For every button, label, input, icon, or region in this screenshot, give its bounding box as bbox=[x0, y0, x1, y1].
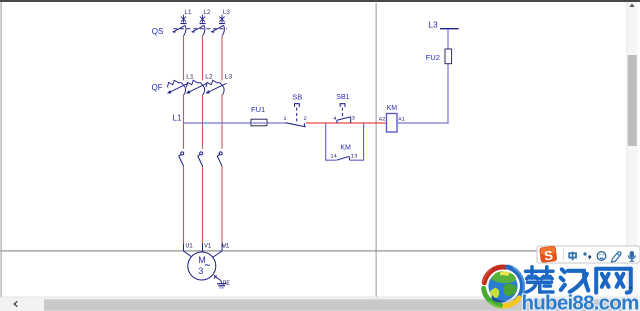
supply terminal L1 bbox=[181, 15, 187, 24]
sogou S logo bbox=[539, 246, 557, 264]
motor M 3~ bbox=[188, 252, 216, 280]
bottom scrollbar track bbox=[0, 297, 640, 311]
disconnect switch QS pole 2 bbox=[191, 25, 205, 35]
supply terminal L3 bbox=[219, 15, 225, 24]
svg-text:KM: KM bbox=[340, 145, 351, 152]
circuit breaker QF pole 2 bbox=[186, 80, 207, 94]
toolbar separator bbox=[563, 249, 565, 261]
icon smiley bbox=[597, 252, 606, 261]
top window border bbox=[0, 0, 640, 2]
svg-text:13: 13 bbox=[351, 152, 358, 159]
svg-text:KM: KM bbox=[387, 105, 398, 112]
wire phase L2 vertical (QF to KM contact) bbox=[202, 95, 204, 149]
hanzi han you bbox=[568, 271, 588, 291]
wire phase L1 vertical (QS to QF) bbox=[183, 36, 185, 81]
svg-text:A2: A2 bbox=[379, 116, 386, 123]
contactor KM main contact pole 1 bbox=[179, 152, 184, 166]
svg-text:M: M bbox=[198, 255, 206, 265]
supply terminal L2 bbox=[200, 15, 206, 24]
toolbar body bbox=[537, 246, 640, 263]
QS mechanical link dashed bbox=[174, 28, 228, 30]
svg-text:L1: L1 bbox=[173, 114, 182, 123]
circuit breaker QF pole 1 bbox=[167, 80, 188, 94]
pushbutton SB (stop, NC) bbox=[286, 104, 306, 127]
hanzi wang outer box bbox=[594, 269, 598, 293]
svg-text:W1: W1 bbox=[222, 243, 230, 250]
svg-text:FU2: FU2 bbox=[426, 53, 440, 62]
ground PE bbox=[214, 275, 226, 288]
disconnect switch QS pole 3 bbox=[210, 25, 224, 35]
wire KM coil to FU2 (blue) bbox=[397, 64, 448, 124]
svg-text:FU1: FU1 bbox=[251, 105, 265, 114]
svg-text:3: 3 bbox=[198, 266, 203, 276]
svg-text:L3: L3 bbox=[428, 20, 438, 30]
icon punctuation bbox=[583, 252, 591, 260]
fuse FU2 bbox=[445, 49, 452, 64]
KM self-holding branch wires bbox=[326, 124, 364, 161]
contactor coil KM bbox=[387, 114, 398, 133]
svg-text:SB: SB bbox=[292, 93, 302, 102]
disconnect switch QS pole 1 bbox=[172, 25, 186, 35]
circuit breaker QF pole 3 bbox=[205, 80, 226, 94]
svg-text:3: 3 bbox=[352, 114, 355, 121]
motor lead W1 bbox=[213, 251, 223, 258]
svg-text:L1: L1 bbox=[184, 9, 192, 16]
svg-text:A1: A1 bbox=[398, 116, 405, 123]
hanzi wang inner crosses bbox=[602, 274, 609, 287]
pushbutton SB1 (start, NO) bbox=[337, 104, 351, 124]
icon zhong (中) bbox=[569, 252, 576, 261]
motor terminal stubs bbox=[184, 244, 223, 258]
wire L1 to FU1 (blue) bbox=[184, 122, 252, 124]
wire SB to KM coil (red, energized) bbox=[306, 122, 387, 124]
left window border bbox=[1, 2, 2, 311]
svg-text:2: 2 bbox=[304, 115, 307, 122]
svg-text:PE: PE bbox=[223, 280, 231, 287]
hanzi chu top-left mu bbox=[526, 270, 539, 274]
sheet divider horizontal grid line bbox=[0, 250, 640, 251]
hanzi han water radical bbox=[562, 269, 565, 272]
svg-text:L2: L2 bbox=[203, 9, 211, 16]
wire phase L2 vertical (QS to QF) bbox=[202, 36, 204, 81]
right scrollbar up arrow bbox=[629, 4, 634, 8]
wire phase L2 vertical (KM contact to motor) bbox=[202, 166, 204, 244]
hanzi chu top-right mu bbox=[541, 270, 554, 274]
right scrollbar track bbox=[627, 2, 638, 297]
bottom scrollbar thumb bbox=[44, 299, 624, 310]
svg-text:V1: V1 bbox=[204, 243, 212, 250]
motor lead V1 bbox=[201, 251, 203, 252]
right scrollbar thumb bbox=[628, 55, 637, 146]
fuse FU1 bbox=[251, 119, 267, 126]
wire phase L1 vertical (QF to KM contact) bbox=[183, 95, 185, 149]
auxiliary contact KM (13-14) bbox=[336, 156, 349, 160]
svg-text:U1: U1 bbox=[186, 243, 194, 250]
svg-text:QS: QS bbox=[152, 27, 164, 36]
icon microphone bbox=[628, 251, 636, 262]
wire phase L3 vertical (KM contact to motor) bbox=[221, 166, 223, 244]
svg-text:L3: L3 bbox=[223, 9, 231, 16]
bottom scrollbar left arrow bbox=[14, 301, 17, 306]
wire phase L1 vertical (KM contact to motor) bbox=[183, 166, 185, 244]
svg-text:hubei88.com: hubei88.com bbox=[522, 292, 639, 311]
terminal L3 bar bbox=[440, 28, 459, 30]
sheet divider vertical grid line bbox=[376, 3, 377, 297]
watermark globe logo bbox=[483, 267, 524, 307]
watermark text 楚汉网 (vector strokes) bbox=[526, 267, 554, 293]
svg-text:L2: L2 bbox=[205, 74, 213, 81]
contactor KM main contact pole 3 bbox=[217, 152, 222, 166]
svg-text:L3: L3 bbox=[225, 74, 233, 81]
contactor KM main contact pole 2 bbox=[198, 152, 203, 166]
motor lead U1 bbox=[184, 251, 193, 258]
wire phase L3 vertical (QS to QF) bbox=[221, 36, 223, 81]
svg-text:14: 14 bbox=[330, 152, 337, 159]
svg-text:SB1: SB1 bbox=[336, 94, 349, 101]
wire phase L3 vertical (QF to KM contact) bbox=[221, 95, 223, 149]
svg-text:L1: L1 bbox=[186, 74, 194, 81]
hanzi chu bottom pi bbox=[528, 281, 552, 285]
icon pencil bbox=[612, 252, 621, 262]
wire FU2 to L3 terminal (blue) bbox=[447, 29, 449, 50]
wire FU1 to SB (blue) bbox=[252, 122, 287, 124]
svg-text:QF: QF bbox=[152, 83, 163, 92]
